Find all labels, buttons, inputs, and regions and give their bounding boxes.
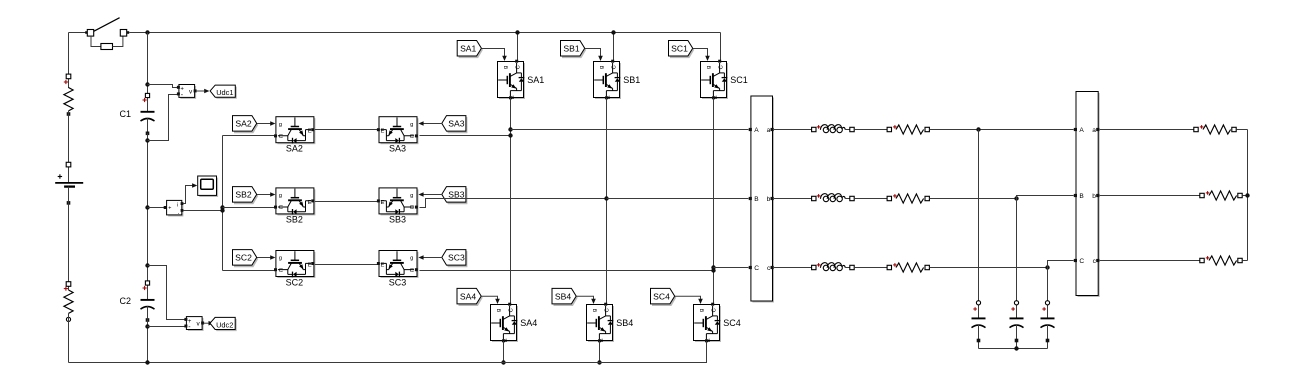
label SA1 [527,75,544,85]
IGBT SA2 [274,117,315,145]
node C2 top tap [145,263,149,267]
svg-text:C1: C1 [120,109,132,119]
wire Lb to Rb [854,198,889,200]
wire cap column x=1047.5 [1047,268,1049,319]
wire neutral to SA2 C [223,135,275,137]
from tag SA2 [233,116,259,134]
node neutral-SB2 junction [220,205,224,209]
wire tag to SA2 gate [257,121,275,126]
label SA4 [520,318,537,328]
svg-text:b: b [1092,193,1096,200]
label SA3 [389,144,406,154]
wire c jog to bus2 [1048,261,1074,268]
wire breaker to top rail [129,32,720,34]
node C1 top tap [145,82,149,86]
goto tag Udc1 [210,85,237,99]
wire Rb2 to star [1242,195,1247,197]
from tag SB3 [442,187,468,205]
svg-text:SC1: SC1 [730,75,748,85]
wire tag to SB1 gate [585,49,603,62]
wire tag to SA4 gate [481,296,500,304]
svg-text:Udc1: Udc1 [216,88,233,97]
wire La to Ra [854,129,889,131]
wire left rail top segment [68,33,70,89]
node phase C line [711,265,715,269]
wire C2 top to V2 plus [148,266,185,320]
three-phase measurement bus1 [749,96,774,303]
IGBT SC2 [274,251,315,279]
from tag SB4 [552,288,578,306]
wire bottom rail [69,341,707,363]
node C2 bottom tap [145,324,149,328]
wire left rail below battery [68,187,70,290]
wire tag to SC3 gate [418,255,441,260]
wire tag to SC2 gate [257,255,275,260]
label SB3 [389,215,406,225]
resistor R_snub2 (series, lower left) [64,282,73,322]
wire C1 bottom to V1 minus [148,95,178,141]
from tag SC3 [442,250,468,268]
series resistor Rb [887,194,929,203]
wire SC2 E to SC3 E [315,264,379,266]
wire tag to SB3 gate [418,192,441,197]
IGBT SA4 [491,303,519,343]
wire midpoint to current sensor [148,207,166,209]
wire SA3 C to phase A [420,135,511,137]
load resistor Rb2 [1200,191,1242,200]
capacitor C2 [141,281,155,322]
node neutral-sensor junction [220,208,224,212]
wire bus1 c to inductor [774,267,814,269]
svg-text:a: a [767,127,771,134]
capacitor C1 [141,93,155,135]
svg-text:SA4: SA4 [520,318,537,328]
wire phase B vertical [606,98,608,304]
wire left rail mid segment [68,111,70,183]
svg-text:SC3: SC3 [389,277,407,287]
wire top rail to SA1 C [517,33,519,62]
label SC3 [389,277,407,287]
wire b jog to bus2 [1017,196,1074,199]
IGBT SC3 [377,251,419,279]
IGBT SB4 [587,303,615,343]
svg-text:SB2: SB2 [235,190,251,200]
svg-text:b: b [767,196,771,203]
wire V2 to Udc2 [204,321,214,326]
from tag SA4 [457,288,483,306]
wire bus2 a to load resistor [1100,129,1196,131]
series resistor Ra [887,125,929,134]
svg-text:B: B [754,196,759,203]
resistor R_snub1 (series, upper left) [64,74,73,116]
wire DC link rail middle [147,133,149,300]
svg-text:a: a [1092,127,1096,134]
wire Lc to Rc [854,267,889,269]
wire DC link rail upper [147,33,149,112]
wire capacitor star link [979,348,1048,350]
svg-text:SB4: SB4 [616,318,633,328]
wire phase C vertical [713,98,715,304]
filter capacitor C at x=1047.5 [1041,301,1055,349]
label SB4 [616,318,633,328]
wire cap column x=1016.5 [1016,199,1018,319]
goto tag Udc2 [210,317,237,331]
node filter cap a tap [976,127,980,131]
wire bus1 b to inductor [774,198,814,200]
wire SA2 E to SA3 E [315,129,379,131]
svg-text:C: C [754,265,759,272]
filter capacitor C at x=978.5 [972,301,986,349]
wire SB4 E to bottom rail [599,341,601,363]
wire bus2 b to load resistor [1100,195,1202,197]
wire Ra to bus2 [929,129,1073,131]
node phase A - SA3 [508,133,512,137]
svg-text:A: A [1079,127,1084,134]
node filter cap b tap [1014,196,1018,200]
node phase B line [604,196,608,200]
three-phase measurement bus2 [1074,92,1100,298]
svg-text:Udc2: Udc2 [216,320,233,329]
wire current sensor signal to scope [183,183,197,203]
node bottom rail SA4 [501,360,505,364]
wire C1 top to V1 plus [148,85,178,88]
IGBT SB3 [377,188,419,216]
from tag SB2 [233,187,259,205]
wire neutral to SC2 C [223,270,275,272]
node bottom rail DC link [145,360,149,364]
svg-text:SA2: SA2 [286,144,303,154]
label SC4 [723,318,741,328]
label SC2 [286,277,304,287]
svg-text:C2: C2 [120,296,132,306]
svg-text:SC1: SC1 [671,43,688,53]
wire phase C to bus1 [714,267,749,269]
wire tag to SB2 gate [257,192,275,197]
wire phase A vertical [510,98,512,304]
svg-text:SC4: SC4 [723,318,741,328]
svg-text:SA1: SA1 [460,43,476,53]
label C2 [120,296,132,306]
breaker CB1 (switch with snubber) [85,18,129,50]
wire phase A to bus1 [511,129,749,131]
label SB2 [286,215,303,225]
IGBT SC4 [694,303,722,343]
svg-text:SC4: SC4 [653,291,670,301]
wire Ra2 to star [1236,129,1247,131]
node capacitor star [1014,346,1018,350]
voltage measurement V1 [177,85,197,99]
wire current sensor to neutral rail [183,210,222,212]
wire tag to SA3 gate [418,121,441,126]
node bottom rail SB4 [597,360,601,364]
wire tag to SC1 gate [693,49,710,62]
svg-text:SA2: SA2 [235,119,251,129]
wire SB3 C to phase B [420,199,607,208]
inductor La [812,125,855,133]
wire top rail to SC1 C [720,33,722,62]
wire SB2 E to SB3 E [315,201,379,203]
wire neutral to SB2 C [223,207,275,209]
svg-text:+: + [168,206,171,212]
from tag SC2 [233,250,259,268]
wire SA4 E to bottom rail [503,341,505,363]
node load star [1245,193,1249,197]
wire neutral rail vertical [222,136,224,271]
wire battery to breaker [69,32,88,34]
svg-text:SB2: SB2 [286,215,303,225]
IGBT SB1 [594,60,622,100]
from tag SA3 [442,116,468,134]
svg-text:C: C [1079,258,1084,265]
from tag SA1 [457,41,483,59]
load resistor Ra2 [1194,125,1236,134]
label SC1 [730,75,748,85]
wire SC3 C to phase C [420,270,714,272]
wire V1 to Udc1 [196,89,209,94]
svg-text:SA4: SA4 [460,291,476,301]
wire phase B to bus1 [607,198,749,200]
wire Rb to cap b tap [929,198,1016,200]
svg-text:SC2: SC2 [286,277,304,287]
IGBT SB2 [274,188,315,216]
svg-text:SB4: SB4 [555,291,571,301]
wire load star vertical [1247,130,1249,261]
IGBT SA1 [498,60,526,100]
node C1 bottom tap [145,138,149,142]
from tag SC4 [651,288,677,306]
svg-text:SB1: SB1 [563,43,579,53]
node filter cap c tap [1045,265,1049,269]
series resistor Rc [887,263,929,272]
node top rail / DC link [145,30,149,34]
wire cap column x=978.5 [978,130,980,319]
from tag SB1 [561,41,587,59]
label C1 [120,109,132,119]
svg-text:SA1: SA1 [527,75,544,85]
node top rail SB1 [611,30,615,34]
wire tag to SC4 gate [675,296,703,304]
label SA2 [286,144,303,154]
wire Rc to cap c tap [929,267,1047,269]
node top rail SA1 [515,30,519,34]
svg-text:A: A [754,127,759,134]
inductor Lc [812,263,855,271]
battery B1 (DC voltage source) [55,162,83,204]
wire tag to SA1 gate [481,49,506,62]
svg-text:i: i [177,203,178,209]
wire tag to SB4 gate [576,296,596,304]
wire top rail to SB1 C [613,33,615,62]
svg-text:SB1: SB1 [623,75,640,85]
scope Scope1 [198,176,218,197]
svg-text:SA3: SA3 [448,119,464,129]
voltage measurement V2 [184,317,204,331]
svg-text:B: B [1079,193,1084,200]
current measurement I1 [164,200,184,216]
node phase A line [508,127,512,131]
wire bus2 c to load resistor [1100,260,1202,262]
IGBT SA3 [377,117,419,145]
wire DC link rail lower [147,306,149,362]
svg-text:SA3: SA3 [389,144,406,154]
label SB1 [623,75,640,85]
wire Rc2 to star [1242,260,1247,262]
from tag SC1 [669,41,695,59]
load resistor Rc2 [1200,256,1242,265]
inductor Lb [812,194,855,202]
node phase C - SC3 [711,268,715,272]
wire bus1 a to inductor [774,129,814,131]
node DC midpoint tap [145,205,149,209]
filter capacitor C at x=1016.5 [1010,301,1024,349]
wire left rail bottom segment [68,313,70,362]
svg-text:SC3: SC3 [448,253,465,263]
svg-text:SC2: SC2 [235,253,252,263]
svg-text:SB3: SB3 [389,215,406,225]
wire C2 bottom to V2 minus [148,326,185,328]
IGBT SC1 [701,60,729,100]
